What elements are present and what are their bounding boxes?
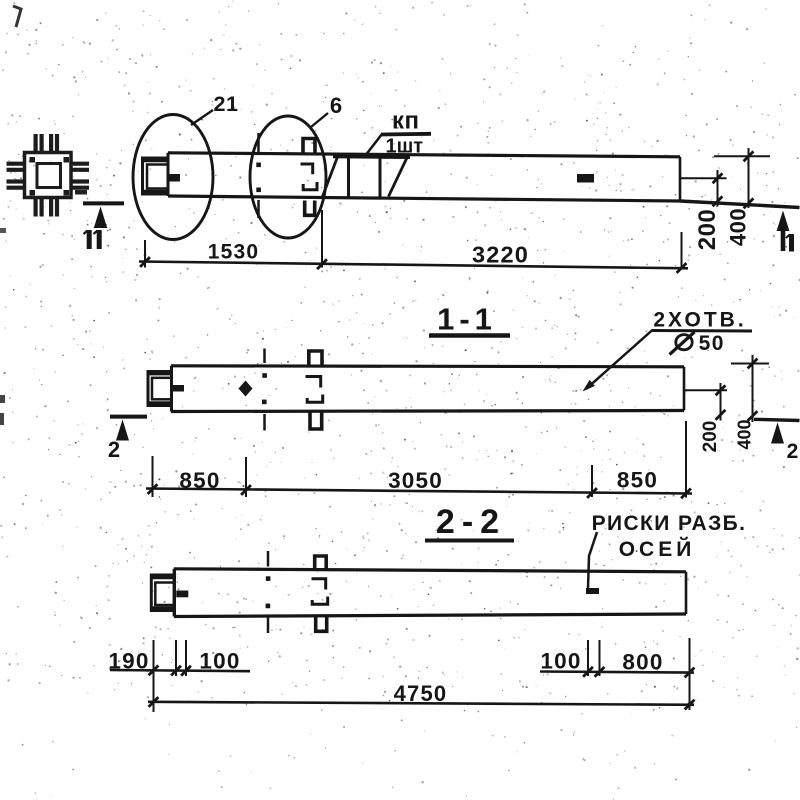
svg-text:6: 6 <box>330 93 342 118</box>
svg-text:1шт: 1шт <box>386 136 424 158</box>
svg-text:3050: 3050 <box>388 468 443 493</box>
svg-text:100: 100 <box>199 648 240 673</box>
svg-text:50: 50 <box>699 332 725 355</box>
svg-text:1530: 1530 <box>208 241 260 264</box>
svg-text:РИСКИ РАЗБ.: РИСКИ РАЗБ. <box>592 512 747 535</box>
svg-text:2: 2 <box>108 437 120 462</box>
svg-text:850: 850 <box>179 468 220 493</box>
svg-text:кп: кп <box>392 108 420 135</box>
svg-text:2: 2 <box>787 440 799 463</box>
svg-text:4750: 4750 <box>394 681 448 706</box>
svg-text:100: 100 <box>540 648 581 673</box>
svg-text:850: 850 <box>617 468 658 493</box>
svg-text:200: 200 <box>694 209 721 251</box>
svg-text:800: 800 <box>622 650 663 675</box>
svg-text:200: 200 <box>700 421 721 453</box>
svg-text:1-1: 1-1 <box>437 302 497 337</box>
svg-text:190: 190 <box>108 648 149 673</box>
svg-text:400: 400 <box>735 419 755 449</box>
svg-text:3220: 3220 <box>472 242 529 268</box>
svg-text:ОСЕЙ: ОСЕЙ <box>619 537 696 561</box>
svg-text:400: 400 <box>726 208 751 246</box>
svg-text:2-2: 2-2 <box>436 503 506 541</box>
svg-text:2ХОТВ.: 2ХОТВ. <box>653 309 746 332</box>
svg-text:21: 21 <box>214 92 239 116</box>
